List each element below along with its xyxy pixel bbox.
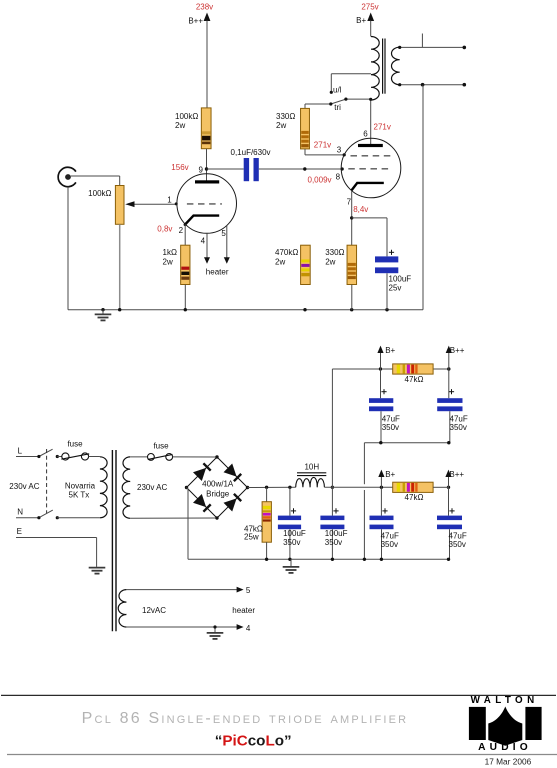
- svg-text:Pcl 86 Single-ended triode amp: Pcl 86 Single-ended triode amplifier: [82, 710, 409, 727]
- svg-text:5: 5: [246, 586, 251, 595]
- svg-text:350v: 350v: [325, 538, 342, 547]
- svg-text:25w: 25w: [244, 532, 259, 541]
- svg-text:275v: 275v: [361, 3, 378, 12]
- svg-text:271v: 271v: [374, 122, 391, 131]
- svg-text:B+: B+: [356, 16, 366, 25]
- svg-text:B++: B++: [450, 346, 465, 355]
- svg-text:350v: 350v: [283, 538, 300, 547]
- svg-text:5K Tx: 5K Tx: [69, 490, 90, 499]
- svg-text:5: 5: [221, 229, 226, 238]
- svg-text:fuse: fuse: [153, 442, 169, 451]
- svg-text:heater: heater: [232, 606, 255, 615]
- svg-text:470kΩ: 470kΩ: [275, 248, 298, 257]
- svg-text:WALTON: WALTON: [471, 695, 539, 706]
- svg-text:1: 1: [167, 195, 172, 204]
- svg-text:L: L: [18, 446, 23, 455]
- svg-text:u/l: u/l: [333, 85, 342, 94]
- svg-text:4: 4: [201, 237, 206, 246]
- svg-text:7: 7: [347, 197, 352, 206]
- svg-text:350v: 350v: [382, 423, 399, 432]
- svg-text:“PiCcoLo”: “PiCcoLo”: [215, 733, 292, 750]
- svg-text:47kΩ: 47kΩ: [405, 375, 424, 384]
- svg-text:8: 8: [336, 173, 341, 182]
- svg-text:1kΩ: 1kΩ: [163, 248, 177, 257]
- svg-text:100uF: 100uF: [283, 529, 306, 538]
- svg-text:Bridge: Bridge: [206, 489, 230, 498]
- svg-text:0,009v: 0,009v: [308, 175, 332, 184]
- svg-text:230v AC: 230v AC: [9, 482, 39, 491]
- svg-text:8,4v: 8,4v: [353, 205, 368, 214]
- svg-text:heater: heater: [206, 267, 229, 276]
- svg-text:Novarria: Novarria: [65, 481, 96, 490]
- svg-text:400w/1A: 400w/1A: [202, 480, 234, 489]
- svg-text:100kΩ: 100kΩ: [88, 189, 111, 198]
- svg-text:fuse: fuse: [67, 440, 83, 449]
- svg-text:271v: 271v: [314, 140, 331, 149]
- svg-text:350v: 350v: [449, 540, 466, 549]
- svg-text:2: 2: [179, 226, 184, 235]
- svg-text:4: 4: [246, 624, 251, 633]
- svg-text:AUDIO: AUDIO: [478, 742, 532, 753]
- svg-text:tri: tri: [334, 103, 341, 112]
- svg-text:2w: 2w: [163, 257, 173, 266]
- svg-text:B++: B++: [449, 470, 464, 479]
- svg-text:238v: 238v: [196, 3, 213, 12]
- svg-text:230v AC: 230v AC: [137, 483, 167, 492]
- svg-text:B+: B+: [385, 346, 395, 355]
- svg-text:350v: 350v: [381, 540, 398, 549]
- svg-text:17 Mar 2006: 17 Mar 2006: [485, 757, 532, 767]
- svg-text:3: 3: [337, 146, 342, 155]
- svg-text:N: N: [17, 508, 23, 517]
- svg-text:350v: 350v: [450, 423, 467, 432]
- svg-text:12vAC: 12vAC: [142, 606, 166, 615]
- svg-text:E: E: [17, 527, 22, 536]
- svg-text:B++: B++: [188, 16, 203, 25]
- svg-text:25v: 25v: [389, 283, 402, 292]
- svg-text:2w: 2w: [276, 121, 286, 130]
- svg-text:100kΩ: 100kΩ: [175, 112, 198, 121]
- svg-text:2w: 2w: [325, 257, 335, 266]
- svg-text:9: 9: [199, 165, 204, 174]
- svg-text:100uF: 100uF: [389, 274, 412, 283]
- svg-text:B+: B+: [385, 470, 395, 479]
- svg-text:10H: 10H: [304, 463, 319, 472]
- svg-text:47kΩ: 47kΩ: [405, 493, 424, 502]
- svg-text:156v: 156v: [171, 163, 188, 172]
- svg-text:330Ω: 330Ω: [325, 248, 344, 257]
- svg-text:6: 6: [363, 129, 368, 138]
- svg-text:2w: 2w: [175, 121, 185, 130]
- svg-text:100uF: 100uF: [325, 529, 348, 538]
- svg-text:0,1uF/630v: 0,1uF/630v: [231, 148, 271, 157]
- svg-text:2w: 2w: [275, 257, 285, 266]
- svg-text:330Ω: 330Ω: [276, 112, 295, 121]
- svg-text:0,8v: 0,8v: [157, 224, 172, 233]
